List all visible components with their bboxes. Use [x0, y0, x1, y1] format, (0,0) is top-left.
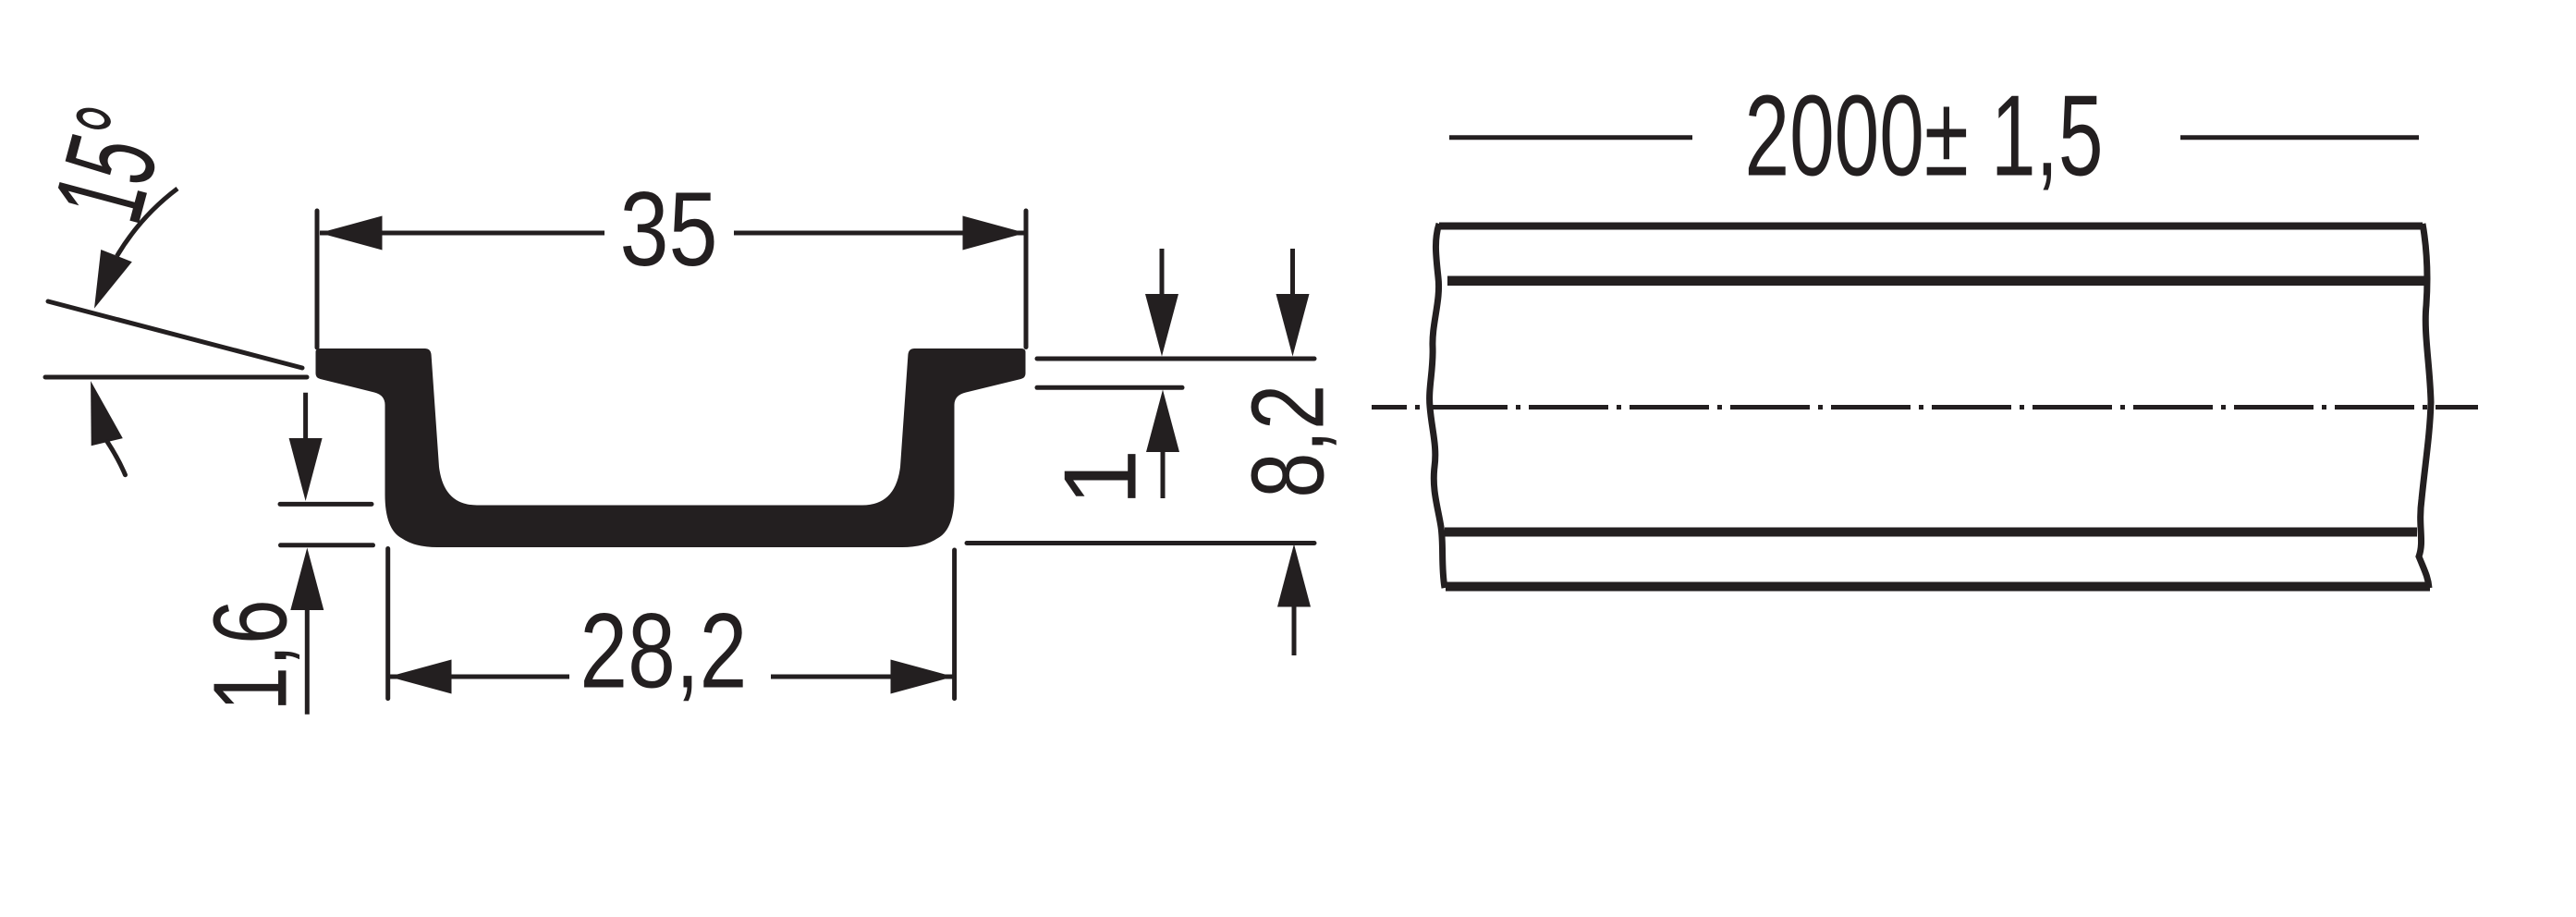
foot thickness "1,6" upper reference line: [280, 502, 372, 507]
DIN rail cross-section profile (hat channel), filled silhouette: [316, 348, 1026, 547]
15 degree angle: lower arc arrowhead: [91, 381, 123, 446]
length dimension: left flank line: [1449, 135, 1692, 140]
width "28,2" extension line left: [385, 549, 390, 699]
thickness "1" up arrowhead: [1146, 390, 1179, 453]
side view: left break (wavy) line: [1430, 224, 1445, 588]
width "28,2" arrow left: [389, 660, 452, 694]
svg-text:15°: 15°: [28, 93, 192, 236]
width "28,2" arrow right: [891, 660, 954, 694]
svg-text:8,2: 8,2: [1231, 385, 1346, 498]
15 degree angle: arc: [117, 189, 178, 256]
height "8,2" up arrow shaft: [1292, 603, 1297, 655]
side view: lower groove line: [1445, 528, 2417, 537]
thickness "1" down arrowhead: [1145, 294, 1178, 357]
side view: right break (wavy) line: [2419, 224, 2431, 588]
foot thickness "1,6" down arrowhead: [289, 438, 323, 501]
thickness "1" upper reference line: [1037, 357, 1314, 361]
foot thickness "1,6" up arrowhead: [290, 548, 324, 611]
foot thickness "1,6" up arrow shaft: [305, 606, 310, 715]
dimension "35" extension line left: [315, 211, 320, 348]
height "8,2" down arrowhead: [1276, 294, 1310, 357]
height "8,2" bottom reference line: [967, 541, 1314, 545]
svg-text:35: 35: [620, 171, 718, 288]
svg-text:2000± 1,5: 2000± 1,5: [1745, 72, 2104, 200]
dimension "35" line left segment: [320, 231, 604, 236]
dimension "35" arrow left: [320, 216, 383, 251]
svg-text:28,2: 28,2: [580, 592, 747, 710]
thickness "1" down arrow shaft: [1160, 249, 1165, 298]
thickness "1" up arrow shaft: [1161, 448, 1166, 498]
15 degree angle: lower arc tail: [107, 442, 126, 475]
15 degree angle: arc arrowhead upper: [94, 250, 132, 309]
width "28,2" extension line right: [952, 550, 957, 699]
foot thickness "1,6" down arrow shaft: [303, 393, 308, 442]
width "28,2" dimension line left segment: [390, 675, 569, 679]
foot thickness "1,6" lower reference line: [281, 543, 373, 547]
side view: upper groove line: [1447, 276, 2427, 287]
svg-text:1,6: 1,6: [192, 600, 309, 712]
15 degree angle: horizontal reference line: [45, 375, 307, 380]
dimension "35" arrow right: [963, 216, 1026, 251]
dimension "35" extension line right: [1024, 211, 1029, 348]
width "28,2" dimension line right segment: [771, 675, 953, 679]
length dimension: right flank line: [2180, 135, 2419, 140]
side view: bottom outline line: [1446, 582, 2430, 592]
15 degree angle: slanted flank line: [48, 301, 302, 368]
side view: center dash-dot line: [1372, 405, 2478, 410]
side view: top outline line: [1439, 223, 2423, 230]
dimension "35" line right segment: [734, 231, 1025, 236]
height "8,2" down arrow shaft: [1290, 249, 1295, 298]
thickness "1" lower reference line: [1037, 385, 1182, 390]
height "8,2" up arrowhead: [1277, 544, 1311, 607]
svg-text:1: 1: [1044, 449, 1158, 507]
